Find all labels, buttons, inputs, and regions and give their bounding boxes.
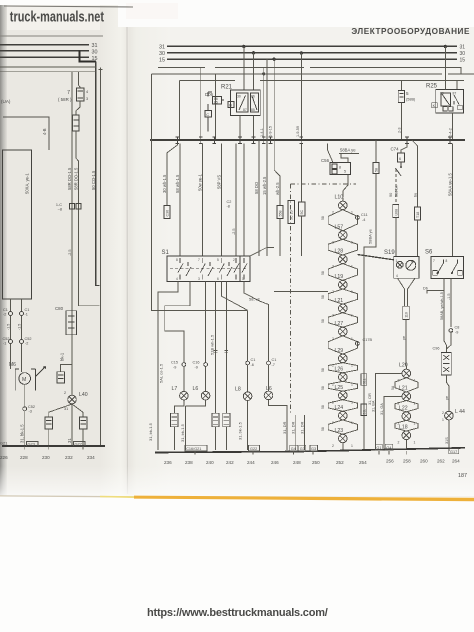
svg-text:15: 15	[460, 57, 466, 63]
svg-text:588 bk: 588 bk	[395, 185, 399, 197]
wire loop cell L27-L29	[328, 336, 357, 354]
wire switch down	[395, 169, 397, 205]
svg-text:58 DO: 58 DO	[254, 181, 259, 194]
svg-text:ye: ye	[445, 396, 449, 400]
lamp L18	[402, 431, 411, 440]
svg-text:C52: C52	[3, 337, 10, 341]
orange page bottom edge	[134, 496, 474, 502]
connector C1-6	[246, 361, 250, 365]
connector C36	[164, 206, 170, 219]
wire x221 down to S1	[220, 144, 222, 257]
R25 contact	[454, 95, 459, 105]
svg-text:262: 262	[437, 459, 445, 464]
svg-text:-8: -8	[227, 205, 230, 209]
connector C15-9	[182, 363, 186, 367]
lamp L21	[339, 304, 348, 313]
resistor rect left	[45, 417, 52, 429]
wire R25 to bus31	[444, 85, 446, 90]
svg-text:C: C	[206, 112, 209, 117]
svg-text:90: 90	[389, 193, 393, 197]
wire C56 down to L10	[343, 175, 348, 198]
svg-text:(58B): (58B)	[406, 98, 416, 102]
svg-text:L27: L27	[335, 321, 344, 327]
wire D06 to R21	[222, 99, 225, 101]
wire loop cell L19-L21	[328, 289, 357, 304]
svg-text:D: D	[229, 103, 232, 108]
svg-text:31: 31	[159, 45, 165, 51]
wire motor down	[24, 384, 26, 407]
fuse rect left upper	[57, 372, 65, 383]
ground G23 label	[27, 442, 39, 447]
wire bend to C36	[167, 144, 178, 206]
svg-text:7: 7	[433, 259, 435, 263]
svg-text:wh-2.5: wh-2.5	[275, 182, 280, 195]
wire fuse5 down	[401, 102, 403, 139]
lamp L26	[339, 373, 348, 382]
lamp L57	[339, 231, 348, 240]
bottom fade	[0, 466, 474, 496]
svg-text:234: 234	[87, 455, 95, 460]
connector U08	[393, 205, 399, 218]
svg-text:7: 7	[67, 90, 70, 96]
svg-text:1-4-2: 1-4-2	[449, 128, 453, 137]
svg-text:187: 187	[458, 473, 467, 479]
wire S6 out 58AB	[444, 279, 446, 353]
wire box to C1 right	[21, 299, 23, 311]
svg-text:5AL co-1.5: 5AL co-1.5	[159, 363, 164, 383]
svg-text:C15: C15	[171, 361, 178, 365]
wire S1 out diagonal to L8 drop	[221, 282, 247, 362]
svg-text:5: 5	[344, 170, 346, 174]
svg-text:236: 236	[164, 460, 172, 465]
wire loop cell L57-L28	[328, 239, 357, 255]
svg-text:bk-1: bk-1	[60, 352, 65, 361]
wire C74 from rail	[401, 144, 407, 154]
rail stubs right page	[195, 451, 406, 455]
svg-text:1-C: 1-C	[56, 203, 62, 207]
svg-text:ЭЛЕКТРООБОРУДОВАНИЕ: ЭЛЕКТРООБОРУДОВАНИЕ	[351, 27, 470, 36]
R25 pin box K	[432, 103, 438, 108]
wire L44 to rail	[448, 420, 450, 451]
wire vertical x96	[96, 62, 100, 286]
svg-text:( 58R ): ( 58R )	[58, 97, 72, 102]
resistor rect right	[80, 417, 87, 429]
svg-text:15: 15	[159, 57, 165, 63]
wire elbow from bus 30	[80, 51, 96, 62]
svg-text:31, GA: 31, GA	[380, 403, 384, 415]
relay internal box D	[228, 102, 234, 108]
svg-text:258: 258	[403, 459, 411, 464]
svg-text:1: 1	[414, 402, 416, 406]
flasher component	[441, 352, 451, 375]
resistor rect r3	[223, 413, 230, 427]
svg-text:L23: L23	[335, 428, 344, 434]
svg-text:L8: L8	[235, 387, 241, 393]
svg-text:C1: C1	[25, 308, 30, 312]
wire loop cell L22-L18	[395, 420, 418, 431]
svg-text:L19: L19	[335, 274, 344, 280]
S1 pin numbers	[176, 258, 244, 281]
wire L40 to right resistor	[72, 404, 83, 417]
wire L18 to rail	[405, 440, 407, 450]
svg-text:558: 558	[279, 211, 283, 217]
wire loop cell L29-L26	[328, 363, 357, 373]
svg-text:86: 86	[251, 95, 255, 99]
svg-text:G4: G4	[291, 447, 296, 451]
connector C1-2	[9, 312, 13, 316]
svg-text:M6: M6	[9, 362, 16, 368]
wire S1 hat diagonal	[250, 248, 274, 257]
wire L40 straight down	[71, 404, 73, 446]
ground G1	[375, 444, 382, 450]
svg-text:58P VS: 58P VS	[216, 175, 221, 189]
wire feed into L10 top	[342, 197, 344, 201]
svg-text:C52: C52	[25, 337, 32, 341]
connector ticks on rail	[176, 137, 452, 144]
wire horiz y74 right page	[152, 73, 474, 75]
R21 coil right	[251, 93, 259, 112]
left page paper	[0, 4, 118, 496]
svg-text:M: M	[22, 377, 26, 383]
svg-text:-1.5: -1.5	[18, 324, 22, 330]
svg-text:58: 58	[321, 427, 325, 431]
svg-text:31, bk-1.5: 31, bk-1.5	[238, 421, 243, 440]
wire S19 V down	[398, 278, 416, 306]
wire S1 out to L6	[205, 282, 207, 363]
R25 bottom pin boxes	[443, 107, 447, 111]
svg-text:1-4-1: 1-4-1	[260, 128, 264, 137]
svg-text:58: 58	[321, 295, 325, 299]
svg-text:L40: L40	[79, 392, 88, 398]
wire stub to 58 box	[375, 140, 377, 163]
svg-text:31: 31	[92, 43, 98, 49]
wire left frame long	[152, 74, 248, 310]
svg-text:87: 87	[243, 108, 247, 112]
svg-text:248: 248	[293, 460, 301, 465]
svg-text:G17: G17	[450, 450, 457, 454]
svg-text:31L: 31L	[362, 409, 366, 415]
svg-text:L29: L29	[335, 348, 344, 354]
wire bus 31 right	[167, 45, 457, 47]
wire loop cell L25-L24	[328, 400, 357, 412]
wire feed into L20 top	[405, 365, 407, 369]
junction dot 31/x445	[444, 45, 447, 48]
svg-text:50w ye-1: 50w ye-1	[197, 173, 202, 191]
svg-text:S19: S19	[384, 250, 395, 256]
svg-text:truck-manuals.net: truck-manuals.net	[10, 8, 105, 25]
ground G3	[299, 445, 306, 451]
wire box to C1 left	[10, 299, 12, 311]
svg-text:L21: L21	[335, 298, 344, 304]
junction dot y74/x263	[262, 72, 265, 75]
wire vertical x72 long	[71, 72, 73, 395]
svg-text:L6: L6	[193, 386, 199, 392]
svg-text:5: 5	[406, 91, 409, 96]
ground G4 second	[385, 444, 393, 450]
svg-text:C2: C2	[227, 200, 232, 204]
svg-text:6: 6	[399, 157, 401, 161]
svg-text:256: 256	[386, 459, 394, 464]
ground G27 label	[74, 442, 86, 447]
connector C16-9	[204, 363, 208, 367]
svg-text:-6: -6	[251, 363, 254, 367]
wire C box down	[207, 117, 209, 132]
wire 31L ground vertical	[364, 174, 376, 451]
wire L21 ground left	[384, 396, 402, 450]
gutter shading	[100, 4, 170, 496]
svg-text:2: 2	[442, 411, 444, 415]
lamp L21	[402, 392, 411, 401]
top white margin	[0, 0, 474, 5]
wire drop y74 to rail x215	[215, 74, 217, 140]
svg-text:58, wt: 58, wt	[249, 297, 261, 302]
svg-text:-3: -3	[29, 410, 32, 414]
junction dot 31/x243	[242, 45, 245, 48]
svg-text:2: 2	[64, 391, 66, 395]
svg-text:Db: Db	[423, 287, 428, 291]
lamp L28	[339, 255, 348, 264]
svg-text:31, bk-1.5: 31, bk-1.5	[180, 423, 185, 442]
wire x202 down to S1	[201, 144, 203, 257]
vertical label box 31L lower	[361, 404, 367, 416]
wire loop cell L20-L21	[395, 378, 418, 392]
wire thick L28 to S19	[357, 255, 393, 260]
svg-text:G3: G3	[300, 447, 305, 451]
svg-text:L18: L18	[399, 425, 408, 431]
box 58 label left	[373, 163, 379, 174]
dash boundary horizontal	[291, 183, 356, 185]
R25 coil	[441, 93, 451, 106]
svg-text:C56: C56	[321, 158, 330, 163]
wire ground trunk x185.3	[184, 406, 186, 450]
wire C52-3 to ground rail	[24, 411, 26, 446]
connector C17B	[356, 342, 360, 346]
ground C16/G21	[185, 445, 207, 451]
svg-text:58R DO-1.5: 58R DO-1.5	[74, 167, 79, 190]
svg-text:-9: -9	[195, 366, 198, 370]
svg-text:L25: L25	[335, 385, 344, 391]
lamp L20	[402, 369, 411, 378]
svg-text:8: 8	[176, 258, 178, 262]
wire x236 down to S1	[235, 144, 237, 257]
svg-text:L21: L21	[399, 386, 408, 392]
connector box C110	[403, 306, 410, 319]
wire R21 out right	[253, 116, 255, 140]
svg-text:31, DR: 31, DR	[300, 421, 305, 434]
wire C56 to rail	[328, 144, 334, 163]
svg-text:31, bk-1.5: 31, bk-1.5	[148, 422, 153, 441]
svg-text:30: 30	[159, 51, 165, 57]
dash boundary vertical	[290, 184, 292, 415]
wire x267 15 wh-2.5 from bus	[266, 59, 268, 256]
svg-text:C1: C1	[3, 308, 8, 312]
svg-text:C96: C96	[433, 347, 440, 351]
svg-text:30: 30	[440, 92, 444, 96]
svg-text:58BA ye: 58BA ye	[368, 228, 373, 244]
svg-text:238: 238	[185, 460, 193, 465]
svg-text:4: 4	[396, 274, 398, 278]
box 50XA unit	[3, 150, 32, 299]
svg-text:87: 87	[453, 92, 457, 96]
svg-text:3: 3	[198, 277, 200, 281]
svg-text:30: 30	[92, 49, 98, 55]
svg-text:30: 30	[237, 95, 241, 99]
svg-text:31: 31	[460, 45, 466, 51]
scale numbers left page	[0, 455, 95, 460]
wire vertical x80 to x78.5 down	[76, 131, 100, 306]
svg-text:G27: G27	[75, 441, 82, 446]
svg-text:15 wh-2.5: 15 wh-2.5	[262, 176, 267, 195]
svg-text:31, DR: 31, DR	[282, 421, 287, 434]
svg-text:1: 1	[396, 259, 398, 263]
vertical label box 31L upper	[361, 374, 367, 386]
svg-text:-1: -1	[3, 342, 6, 346]
wire flasher to L44	[446, 375, 449, 411]
svg-text:228: 228	[20, 455, 28, 460]
resistor rect r1	[171, 413, 178, 427]
R21 contact left	[237, 93, 249, 112]
svg-text:31S: 31S	[445, 437, 449, 444]
svg-text:L10: L10	[335, 195, 344, 201]
wire loop cell L26-L25	[328, 381, 357, 391]
ground G3 second	[310, 445, 318, 451]
rail stubs left page	[25, 446, 83, 450]
wire x275 slanted top	[274, 59, 280, 205]
svg-text:-2: -2	[3, 313, 6, 317]
wire loop cell L10-L57	[328, 210, 357, 231]
wire C110 to chain2	[405, 320, 407, 366]
svg-text:230: 230	[42, 455, 50, 460]
wire loop cell L28-L19	[328, 264, 357, 281]
svg-text:2: 2	[233, 258, 235, 262]
connector C8-9	[449, 329, 453, 333]
wire x301 down from rail	[300, 144, 302, 203]
wire bus 31 left	[0, 44, 89, 46]
svg-text:50XA, ye-1: 50XA, ye-1	[25, 173, 30, 194]
wire T18 to S19	[417, 220, 419, 257]
svg-text:T18: T18	[416, 212, 420, 218]
svg-text:110: 110	[405, 312, 409, 318]
svg-text:58BA ye: 58BA ye	[340, 148, 356, 153]
svg-text:58 wh-1.5: 58 wh-1.5	[175, 174, 180, 193]
wire stub page edge x100	[99, 68, 103, 447]
S1 contacts	[178, 258, 247, 280]
lamp L27	[339, 327, 348, 336]
svg-text:50 CO-1.5: 50 CO-1.5	[91, 170, 96, 190]
svg-text:3: 3	[86, 97, 88, 101]
svg-text:58AB, ye/wh-1.5: 58AB, ye/wh-1.5	[440, 292, 444, 320]
wire horiz y117 top-left	[3, 117, 49, 150]
wire drop y67 to rail x263	[263, 67, 265, 140]
svg-text:C36: C36	[165, 210, 169, 217]
connector ticks on r2/r3 feeds	[214, 351, 229, 353]
wire 58AA ye-1.5 long vertical	[452, 144, 454, 257]
connector C7 pair on x72/x78.5	[70, 204, 75, 210]
wire top spare line	[0, 35, 103, 37]
svg-text:1-9-59: 1-9-59	[296, 126, 300, 137]
wire S1 out diagonal to L6b drop	[244, 282, 269, 362]
svg-text:C16/G21: C16/G21	[186, 447, 201, 451]
svg-text:-4: -4	[362, 218, 365, 222]
lamp L24	[339, 411, 348, 420]
svg-text:C11: C11	[361, 213, 368, 217]
wire x244 down to S1	[243, 144, 245, 257]
svg-text:(UA): (UA)	[1, 99, 11, 104]
connector C11-4	[356, 216, 360, 220]
right page paper	[108, 26, 474, 499]
lamp L29	[339, 354, 348, 363]
junction dot 30/x253	[252, 51, 255, 54]
svg-text:4: 4	[176, 277, 178, 281]
svg-text:L 44: L 44	[455, 409, 465, 415]
wire drop 31 to R25	[444, 46, 446, 89]
svg-text:58: 58	[321, 405, 325, 409]
svg-text:L7: L7	[172, 386, 178, 392]
svg-text:-2.5: -2.5	[232, 228, 236, 235]
svg-text:240: 240	[206, 460, 214, 465]
lamp L22	[402, 412, 411, 421]
connector C52-2	[20, 340, 24, 344]
svg-text:232: 232	[65, 455, 73, 460]
wire C52 to motor	[10, 344, 12, 370]
wire lamp L7/L6 bottoms join	[174, 400, 205, 413]
bottom white area	[0, 497, 474, 632]
connector C1-1	[20, 312, 24, 316]
gutter crease	[126, 8, 129, 494]
wire L20 ground left	[376, 373, 402, 450]
wire loop cell L21-L27	[328, 313, 357, 328]
wire Db stub	[427, 291, 444, 294]
connector C52-1	[9, 340, 13, 344]
svg-text:31: 31	[64, 407, 68, 411]
lamp L19	[339, 280, 348, 289]
svg-text:-2: -2	[25, 342, 28, 346]
wire LED rects mid	[216, 282, 227, 414]
wire U08 to S19	[395, 218, 397, 257]
wire L40 to left resistor	[49, 404, 72, 417]
wire R25 out bottom	[452, 113, 454, 140]
ground G17	[449, 449, 459, 454]
svg-text:-1: -1	[25, 313, 28, 317]
wire grounds 31DR	[296, 415, 305, 450]
wire drop y67 to rail x200	[200, 67, 202, 140]
ground G4	[290, 445, 298, 451]
svg-text:5A: 5A	[391, 385, 395, 390]
wire bus 15 right	[167, 58, 457, 60]
svg-text:R25: R25	[426, 84, 438, 90]
resistor rect r2	[212, 413, 219, 427]
svg-text:-1.5: -1.5	[7, 324, 11, 330]
wire bus 30 left	[0, 50, 89, 52]
label box SC10 left	[288, 201, 295, 224]
svg-text:4: 4	[86, 90, 88, 94]
svg-text:2: 2	[332, 444, 334, 448]
svg-text:C80: C80	[55, 306, 64, 311]
svg-text:2-3: 2-3	[398, 128, 402, 134]
component box C	[205, 111, 212, 118]
connector C55	[277, 206, 283, 219]
svg-text:L57: L57	[335, 224, 344, 230]
svg-text:-9: -9	[455, 331, 458, 335]
svg-text:1-9-15: 1-9-15	[269, 126, 273, 137]
wire 58BA underline	[339, 154, 359, 163]
wire horiz y67 right page	[158, 67, 461, 74]
svg-text:–8: –8	[58, 208, 62, 212]
svg-text:U08: U08	[394, 209, 398, 216]
svg-text:-7: -7	[272, 363, 275, 367]
wire S6 out to C8	[450, 279, 452, 327]
svg-text:S1: S1	[162, 250, 170, 256]
